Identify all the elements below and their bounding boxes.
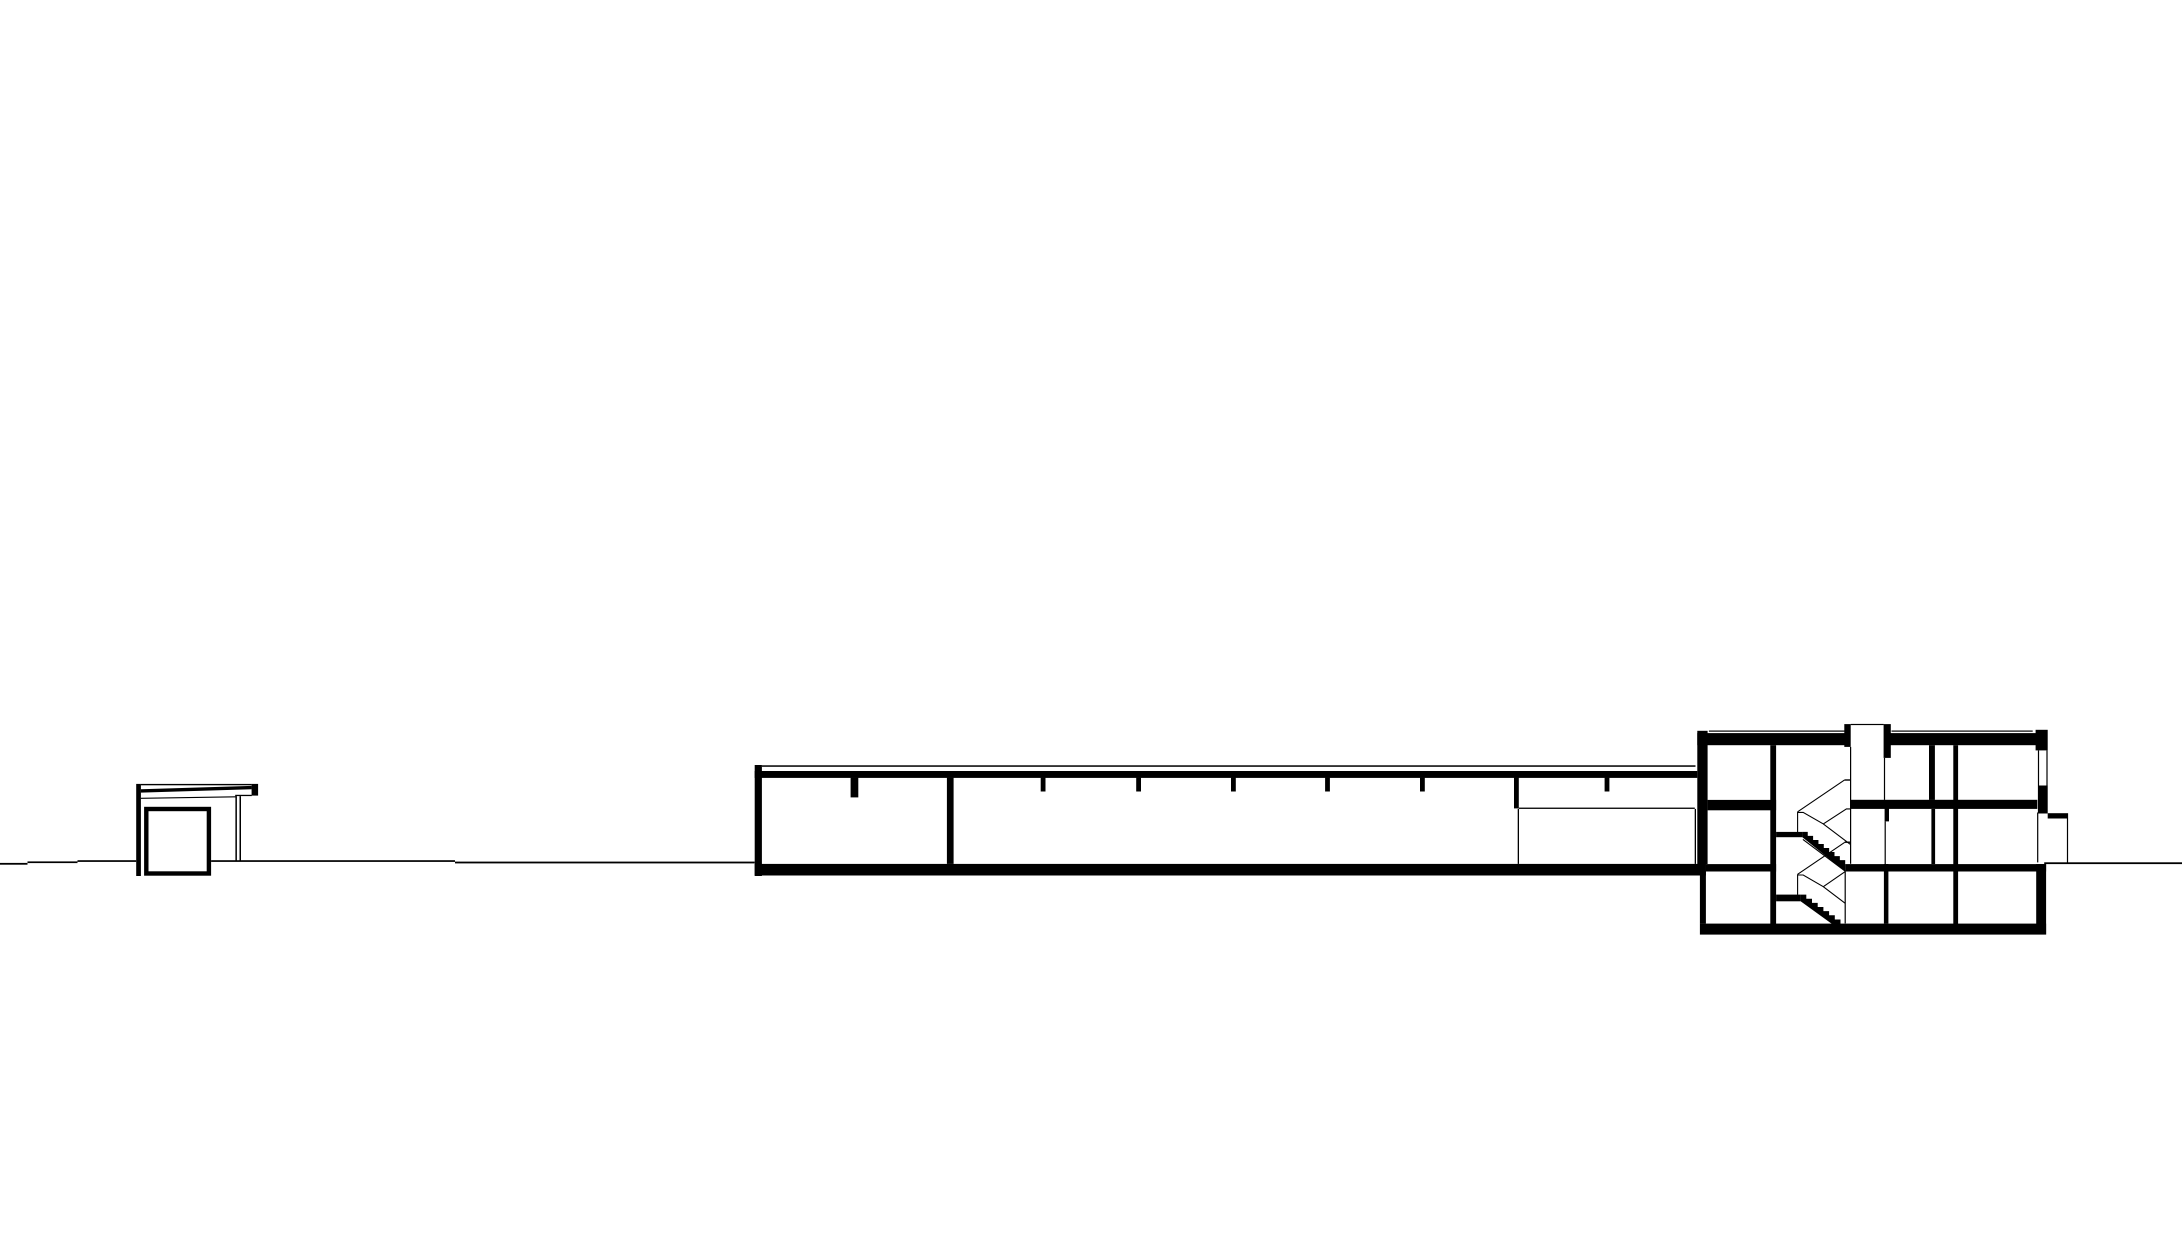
pavilion room box [144,807,211,876]
window jamb line [2038,750,2039,785]
ground line pavilion to mid step [211,860,455,862]
upper flight handrail line [1803,839,1845,871]
upper railing rail [1798,780,1845,812]
upper far flight stringer [1823,809,1850,824]
stair wall left [1770,745,1776,924]
upper railing landing rail [1845,779,1851,781]
ground slab left bay [1706,864,1776,871]
skylight curb right [1884,724,1891,758]
ceiling tick 3 [1231,778,1236,792]
gallery partition wall [947,778,954,864]
ground line mid to long building [455,862,755,864]
pavilion roof underside line [141,796,236,799]
shaft wall upper floor [1929,745,1935,800]
lower railing landing rail [1845,841,1851,843]
service wall [1953,745,1958,924]
first floor slab right part [1850,800,2037,809]
ground floor inner face line [2037,813,2038,863]
corridor ceiling line [1519,808,1695,809]
main house roof slab left [1697,733,1850,745]
ground line far left segment [0,863,28,865]
stair shaft edge line [1850,747,1852,864]
pavilion left wall [136,784,141,876]
lower railing post [1797,874,1799,895]
ceiling tick 5 [1420,778,1425,792]
window outer glass line [2046,750,2047,785]
entrance glass line [2067,819,2068,863]
ceiling tick 2 [1136,778,1141,792]
basement right wall [2036,864,2046,934]
shaft wall ground floor [1931,809,1935,864]
pavilion roof top line [141,784,252,785]
main house roof line left [1709,731,1845,732]
ceiling tick 6 [1605,778,1610,792]
door glass line [1885,821,1886,864]
ceiling tick 4 [1325,778,1330,792]
basement bottom slab [1700,924,2046,935]
lower far flight stringer [1823,872,1845,887]
pavilion post left line [235,796,237,861]
skylight curb left [1844,724,1850,747]
basement cut stair flight [1801,895,1841,931]
corridor left glass line [1518,809,1519,864]
main house roof slab right [1884,733,2036,745]
gallery left wall [755,765,762,876]
upper railing post [1797,812,1799,832]
main house basement left wall [1700,864,1706,924]
half landing basement [1776,895,1801,902]
lower railing rail [1798,842,1845,874]
upper flight soffit line [1798,812,1851,844]
main house roof line right [1892,731,2033,732]
door header stub [1885,808,1889,821]
pavilion roof overhang soffit line [235,795,252,796]
pavilion roof right end block [252,784,259,796]
ground line left of pavilion [78,860,137,862]
ground line step 2 [28,861,78,863]
entrance canopy slab [2048,813,2068,818]
ground line right of main house [2044,862,2182,864]
ceiling tick 1 [1041,778,1046,792]
pavilion sloping roof beam [141,786,252,793]
skylight top line [1851,724,1884,725]
ground slab right part [1845,864,2046,871]
spandrel right facade [2038,786,2048,814]
stair shaft right line [1884,758,1885,800]
stairwell post line [1844,871,1846,923]
upper cut stair flight [1802,832,1845,872]
corridor right face line [1695,809,1696,864]
half landing upper [1776,832,1802,837]
roof parapet right [2036,730,2048,751]
gallery thin roof line [762,765,1696,767]
gallery floor slab [755,864,1706,876]
lower flight soffit line [1798,875,1846,903]
pavilion post right line [240,796,242,861]
corridor beam stub [1514,778,1519,809]
gallery roof slab [755,771,1698,778]
basement middle wall [1884,864,1889,924]
main house left wall [1697,731,1707,864]
first floor slab left bay [1708,800,1777,810]
gallery interior wall stub [851,778,859,798]
